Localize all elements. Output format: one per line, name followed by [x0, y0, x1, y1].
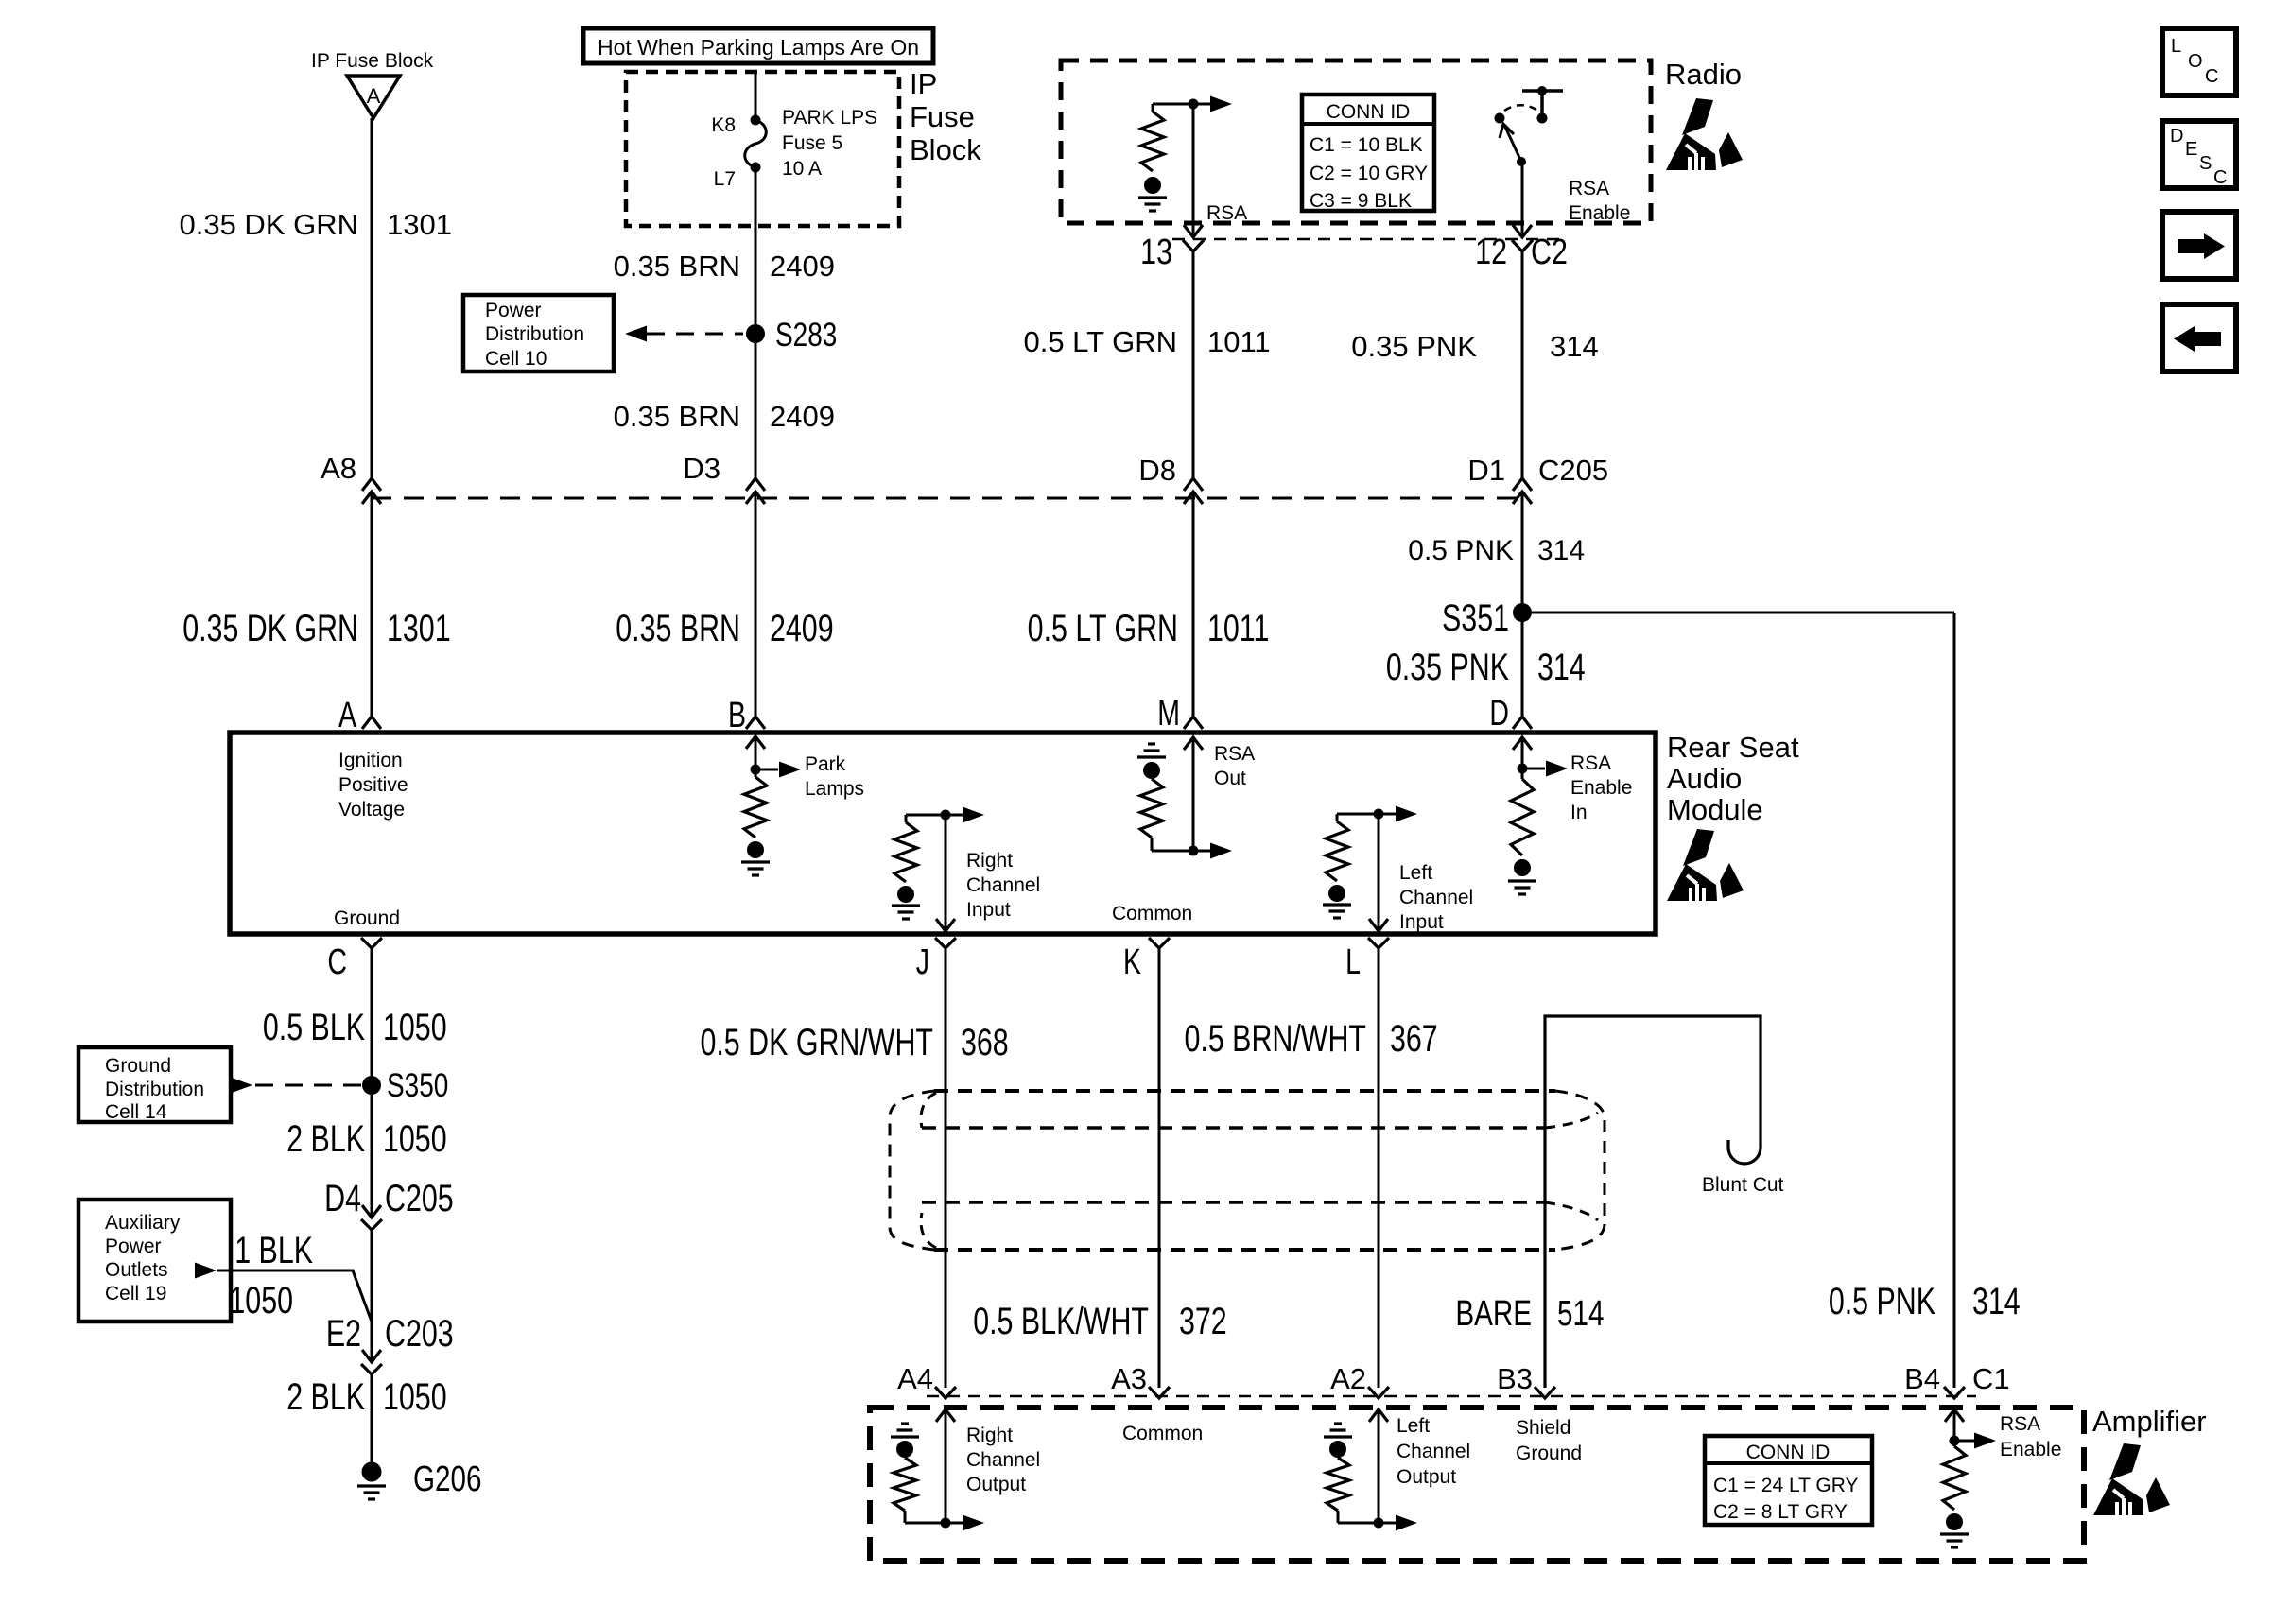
svg-text:C1: C1	[1972, 1362, 2010, 1395]
svg-text:2409: 2409	[770, 607, 834, 649]
svg-text:M: M	[1157, 694, 1180, 734]
svg-text:C: C	[2213, 167, 2227, 188]
svg-text:D: D	[1489, 694, 1509, 734]
svg-text:L: L	[1345, 942, 1361, 982]
svg-text:D4: D4	[324, 1177, 361, 1219]
svg-text:Ground: Ground	[105, 1055, 171, 1077]
svg-text:Common: Common	[1122, 1423, 1203, 1444]
svg-text:Audio: Audio	[1667, 762, 1742, 795]
svg-text:Auxiliary: Auxiliary	[105, 1212, 181, 1234]
svg-text:314: 314	[1537, 535, 1585, 566]
svg-text:BARE: BARE	[1455, 1294, 1532, 1334]
svg-text:CONN ID: CONN ID	[1746, 1442, 1831, 1463]
svg-text:A: A	[338, 696, 357, 735]
svg-text:C1 = 10 BLK: C1 = 10 BLK	[1310, 134, 1423, 156]
svg-text:0.5 BRN/WHT: 0.5 BRN/WHT	[1184, 1017, 1366, 1060]
svg-text:1011: 1011	[1207, 325, 1271, 358]
svg-text:RSA: RSA	[1214, 743, 1255, 765]
svg-text:Ignition: Ignition	[338, 750, 403, 771]
svg-text:Power: Power	[105, 1235, 162, 1257]
svg-text:A: A	[367, 84, 381, 108]
svg-text:B3: B3	[1497, 1362, 1533, 1395]
svg-text:10 A: 10 A	[782, 158, 822, 180]
svg-text:Output: Output	[966, 1474, 1026, 1495]
svg-text:0.35 BRN: 0.35 BRN	[614, 400, 740, 433]
svg-text:C203: C203	[385, 1312, 454, 1355]
svg-text:L: L	[2171, 36, 2181, 57]
svg-text:G206: G206	[413, 1460, 481, 1499]
svg-text:Left: Left	[1397, 1415, 1430, 1437]
svg-text:367: 367	[1390, 1017, 1438, 1060]
svg-text:Channel: Channel	[966, 874, 1040, 896]
svg-text:Blunt Cut: Blunt Cut	[1702, 1174, 1784, 1196]
svg-text:Amplifier: Amplifier	[2092, 1405, 2207, 1438]
svg-text:RSA: RSA	[1569, 178, 1609, 199]
svg-text:S: S	[2199, 153, 2212, 174]
svg-text:2409: 2409	[770, 400, 835, 433]
svg-text:Radio: Radio	[1665, 58, 1742, 91]
svg-text:CONN ID: CONN ID	[1327, 101, 1411, 123]
svg-text:C205: C205	[1538, 454, 1608, 487]
svg-text:Park: Park	[805, 753, 846, 775]
svg-text:314: 314	[1550, 330, 1599, 363]
svg-text:Fuse 5: Fuse 5	[782, 132, 842, 154]
svg-text:E: E	[2185, 139, 2197, 160]
svg-text:A2: A2	[1330, 1362, 1366, 1395]
svg-text:0.5 PNK: 0.5 PNK	[1829, 1280, 1935, 1322]
svg-text:0.35 DK GRN: 0.35 DK GRN	[179, 208, 358, 241]
svg-text:A8: A8	[321, 452, 356, 485]
svg-text:Right: Right	[966, 850, 1013, 872]
svg-text:C3 = 9 BLK: C3 = 9 BLK	[1310, 190, 1412, 212]
svg-text:Shield: Shield	[1516, 1417, 1570, 1439]
svg-text:Voltage: Voltage	[338, 799, 405, 821]
svg-text:In: In	[1570, 802, 1588, 823]
svg-text:Out: Out	[1214, 768, 1246, 789]
svg-text:1 BLK: 1 BLK	[234, 1229, 313, 1271]
svg-text:0.5 LT GRN: 0.5 LT GRN	[1023, 325, 1177, 358]
svg-text:0.35 BRN: 0.35 BRN	[616, 607, 740, 649]
svg-text:Block: Block	[910, 133, 981, 166]
svg-text:Enable: Enable	[2000, 1439, 2061, 1460]
svg-text:Outlets: Outlets	[105, 1259, 168, 1281]
svg-text:S351: S351	[1442, 596, 1509, 639]
svg-text:Positive: Positive	[338, 774, 408, 796]
svg-text:1050: 1050	[383, 1375, 447, 1418]
svg-text:2 BLK: 2 BLK	[286, 1117, 365, 1160]
svg-text:D8: D8	[1138, 454, 1176, 487]
svg-text:0.35 PNK: 0.35 PNK	[1351, 330, 1477, 363]
svg-text:372: 372	[1179, 1300, 1227, 1342]
svg-text:Output: Output	[1397, 1466, 1456, 1488]
svg-text:J: J	[916, 942, 929, 982]
svg-text:1301: 1301	[387, 607, 451, 649]
svg-text:0.35 PNK: 0.35 PNK	[1386, 646, 1509, 688]
svg-text:0.5 LT GRN: 0.5 LT GRN	[1028, 607, 1178, 649]
svg-text:1050: 1050	[383, 1117, 447, 1160]
svg-text:1301: 1301	[387, 208, 452, 241]
svg-text:B4: B4	[1904, 1362, 1940, 1395]
svg-text:Distribution: Distribution	[105, 1079, 204, 1100]
svg-text:S350: S350	[387, 1066, 448, 1104]
svg-text:IP: IP	[910, 67, 937, 100]
svg-text:Distribution: Distribution	[485, 323, 584, 345]
svg-text:A4: A4	[897, 1362, 933, 1395]
svg-text:C: C	[2205, 66, 2218, 87]
svg-text:C: C	[327, 942, 347, 982]
svg-text:Input: Input	[1399, 911, 1444, 933]
svg-text:0.5 DK GRN/WHT: 0.5 DK GRN/WHT	[700, 1021, 933, 1063]
svg-text:Cell 14: Cell 14	[105, 1101, 167, 1123]
svg-text:RSA: RSA	[2000, 1413, 2040, 1435]
svg-text:D: D	[2170, 126, 2183, 147]
svg-text:O: O	[2188, 51, 2203, 72]
svg-text:IP Fuse Block: IP Fuse Block	[311, 50, 434, 72]
svg-text:2409: 2409	[770, 250, 835, 283]
svg-text:0.35 DK GRN: 0.35 DK GRN	[182, 607, 358, 649]
svg-text:Enable: Enable	[1570, 777, 1632, 799]
svg-text:2 BLK: 2 BLK	[286, 1375, 365, 1418]
svg-text:Fuse: Fuse	[910, 100, 975, 133]
svg-text:S283: S283	[775, 316, 837, 354]
svg-text:L7: L7	[714, 168, 736, 190]
svg-text:0.5 PNK: 0.5 PNK	[1408, 535, 1514, 566]
svg-text:Channel: Channel	[1399, 887, 1473, 908]
svg-text:RSA: RSA	[1206, 202, 1247, 224]
svg-text:13: 13	[1140, 233, 1172, 272]
svg-text:368: 368	[961, 1021, 1009, 1063]
svg-text:C2 = 8 LT GRY: C2 = 8 LT GRY	[1713, 1501, 1848, 1523]
svg-text:Left: Left	[1399, 862, 1432, 884]
svg-text:C2 = 10 GRY: C2 = 10 GRY	[1310, 163, 1428, 184]
svg-text:K8: K8	[711, 114, 736, 136]
svg-text:C205: C205	[385, 1177, 454, 1219]
svg-text:Hot When Parking Lamps Are On: Hot When Parking Lamps Are On	[598, 35, 919, 60]
svg-text:A3: A3	[1111, 1362, 1147, 1395]
svg-text:314: 314	[1972, 1280, 2021, 1322]
svg-text:Power: Power	[485, 300, 542, 321]
svg-text:Rear Seat: Rear Seat	[1667, 731, 1799, 764]
svg-text:12: 12	[1475, 233, 1507, 272]
svg-text:Cell 10: Cell 10	[485, 348, 547, 370]
svg-text:Input: Input	[966, 899, 1011, 921]
svg-text:PARK LPS: PARK LPS	[782, 107, 877, 129]
svg-text:Ground: Ground	[334, 907, 400, 929]
svg-text:Enable: Enable	[1569, 202, 1630, 224]
svg-text:D3: D3	[683, 452, 720, 485]
svg-text:Lamps: Lamps	[805, 778, 864, 800]
svg-text:D1: D1	[1467, 454, 1505, 487]
svg-text:Channel: Channel	[1397, 1441, 1470, 1462]
svg-text:Ground: Ground	[1516, 1443, 1582, 1464]
svg-text:Right: Right	[966, 1425, 1013, 1446]
svg-text:C2: C2	[1531, 233, 1568, 272]
svg-text:C1 = 24 LT GRY: C1 = 24 LT GRY	[1713, 1475, 1859, 1496]
svg-text:RSA: RSA	[1570, 752, 1611, 774]
svg-text:0.5 BLK/WHT: 0.5 BLK/WHT	[973, 1300, 1149, 1342]
svg-text:0.35 BRN: 0.35 BRN	[614, 250, 740, 283]
svg-text:0.5 BLK: 0.5 BLK	[263, 1006, 365, 1048]
svg-text:514: 514	[1557, 1294, 1604, 1334]
svg-text:B: B	[728, 696, 746, 735]
svg-text:Common: Common	[1112, 903, 1192, 924]
svg-text:1011: 1011	[1207, 607, 1269, 649]
svg-text:E2: E2	[326, 1312, 361, 1355]
svg-text:K: K	[1123, 942, 1142, 982]
svg-text:Channel: Channel	[966, 1449, 1040, 1471]
svg-text:1050: 1050	[229, 1279, 293, 1322]
svg-text:1050: 1050	[383, 1006, 447, 1048]
svg-text:Module: Module	[1667, 793, 1763, 826]
svg-text:Cell 19: Cell 19	[105, 1283, 166, 1304]
svg-text:314: 314	[1537, 646, 1586, 688]
